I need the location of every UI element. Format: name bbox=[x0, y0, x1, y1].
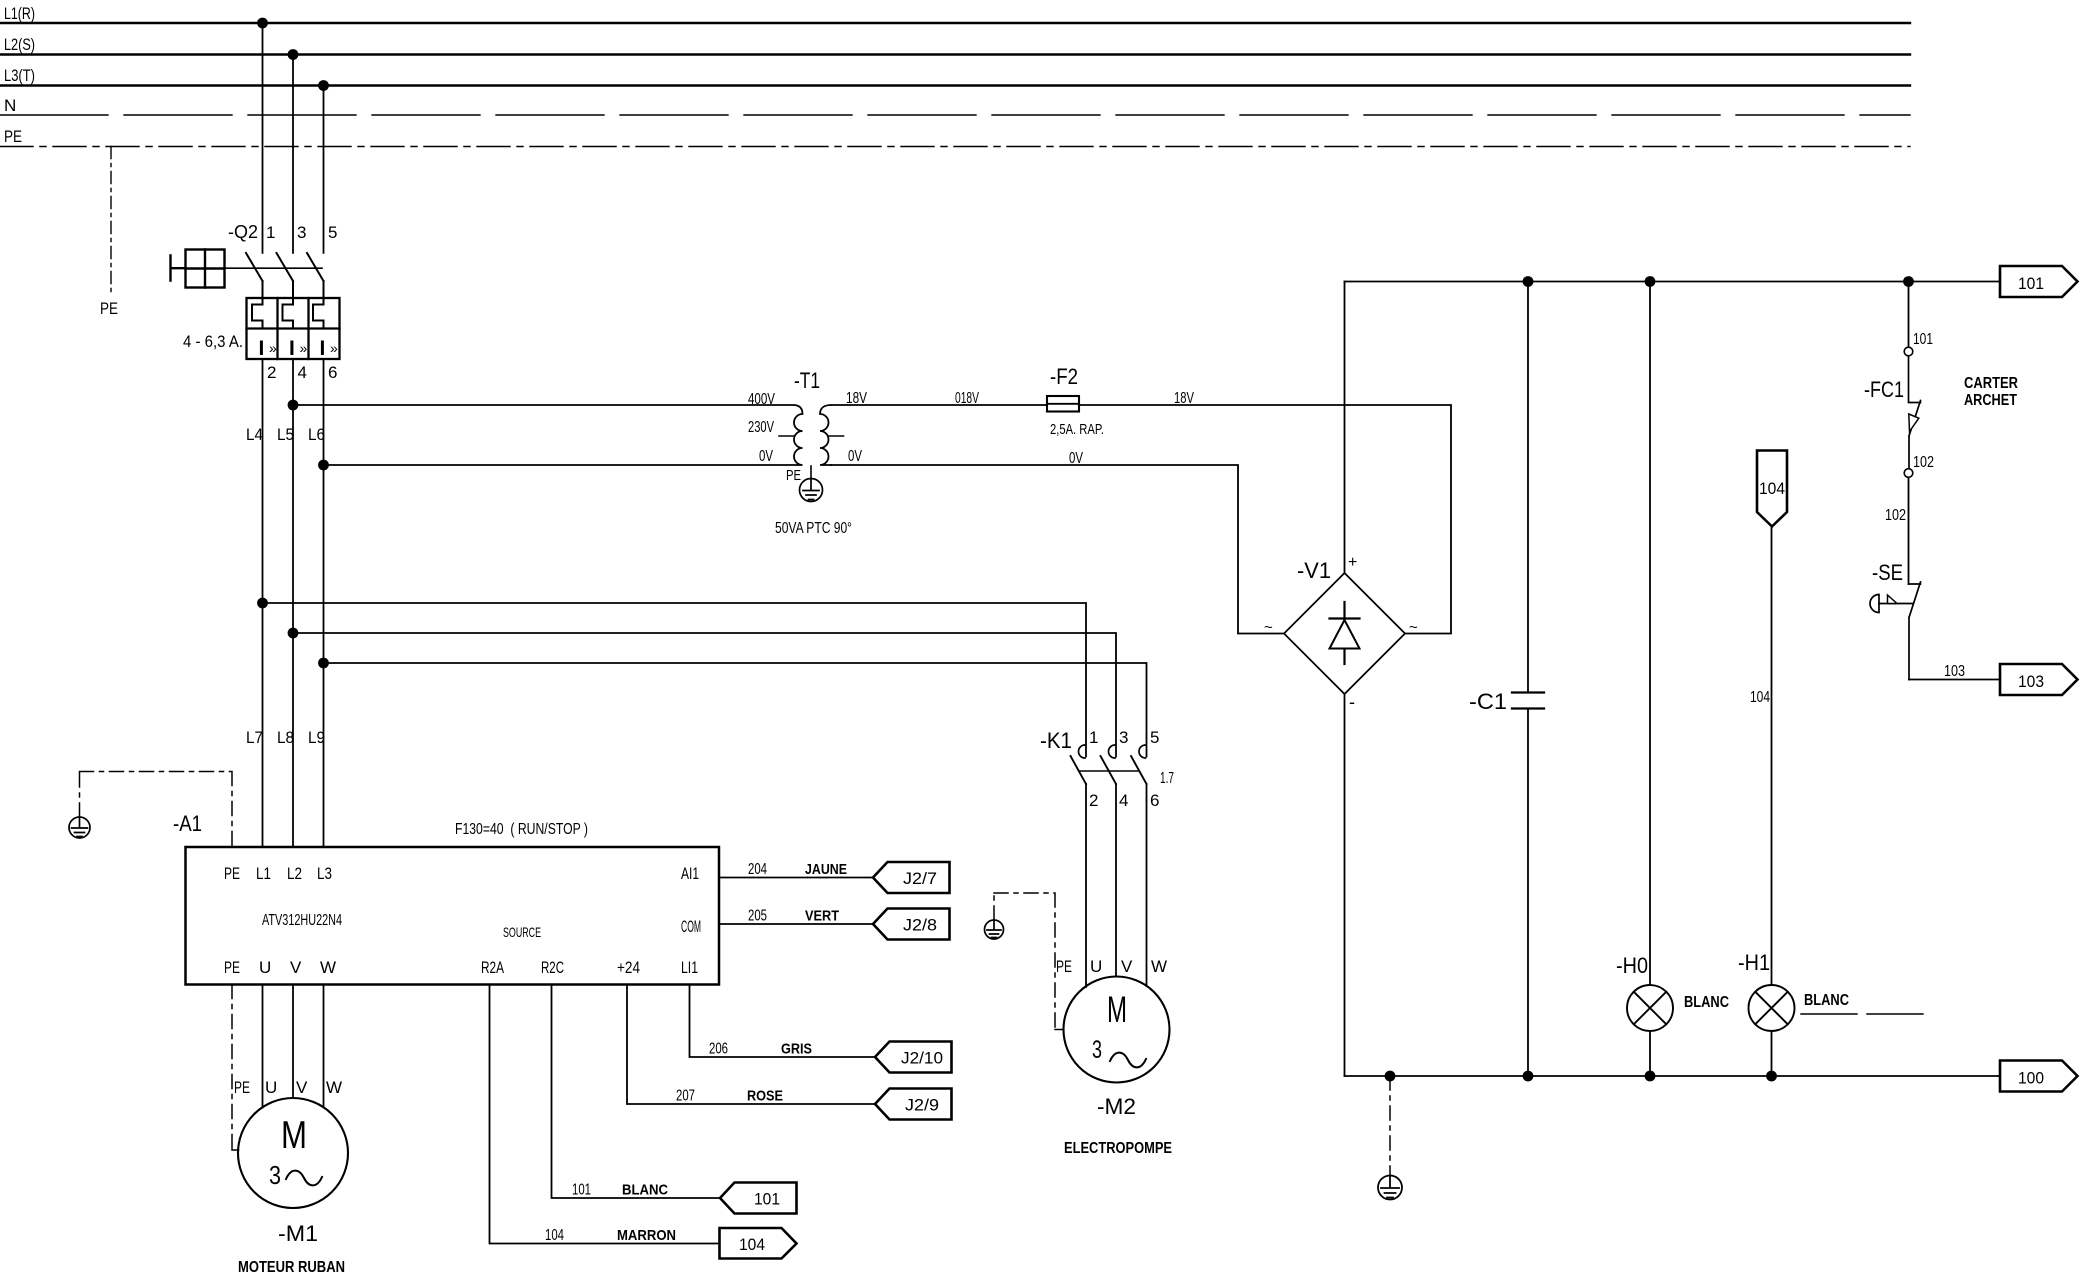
svg-text:PE: PE bbox=[224, 864, 240, 883]
wire L6 bbox=[323, 359, 325, 847]
svg-text:-H1: -H1 bbox=[1738, 950, 1770, 975]
wire PE rail bbox=[0, 146, 1910, 148]
breaker Q2 handle box bbox=[186, 250, 225, 288]
wire L2 rail bbox=[0, 53, 1910, 55]
svg-text:J2/10: J2/10 bbox=[901, 1049, 943, 1068]
svg-text:GRIS: GRIS bbox=[781, 1041, 812, 1058]
wire PE dash-dot M1 bbox=[232, 985, 239, 1151]
wire W to M1 bbox=[323, 985, 325, 1108]
motor M1 bbox=[238, 1098, 348, 1208]
svg-text:L8: L8 bbox=[277, 728, 294, 747]
svg-text:V: V bbox=[290, 958, 302, 977]
svg-text:L3(T): L3(T) bbox=[4, 66, 35, 85]
svg-text:R2C: R2C bbox=[541, 958, 564, 977]
wire to connector 103 bbox=[1909, 679, 2000, 681]
svg-text:3: 3 bbox=[1119, 728, 1128, 747]
svg-text:+24: +24 bbox=[617, 958, 640, 977]
breaker Q2 thermal block bbox=[247, 298, 340, 359]
svg-text:-FC1: -FC1 bbox=[1864, 377, 1904, 402]
svg-text:6: 6 bbox=[328, 363, 337, 382]
node L5 to T1 400V bbox=[288, 400, 299, 411]
svg-text:MARRON: MARRON bbox=[617, 1227, 676, 1244]
svg-text:L1(R): L1(R) bbox=[4, 4, 35, 23]
svg-text:COM: COM bbox=[681, 917, 701, 936]
svg-text:PE: PE bbox=[100, 299, 118, 318]
wire L4 bbox=[262, 359, 264, 847]
svg-text:L4: L4 bbox=[246, 425, 263, 444]
svg-text:104: 104 bbox=[1759, 479, 1785, 498]
svg-text:ATV312HU22N4: ATV312HU22N4 bbox=[262, 912, 342, 929]
svg-text:103: 103 bbox=[1944, 663, 1965, 680]
svg-text:PE: PE bbox=[1056, 957, 1072, 976]
wire to earth bbox=[1389, 1076, 1391, 1174]
svg-text:L7: L7 bbox=[246, 728, 263, 747]
svg-text:101: 101 bbox=[754, 1190, 780, 1209]
contactor K1 fixed contact 3 bbox=[1109, 745, 1116, 758]
svg-text:ARCHET: ARCHET bbox=[1964, 392, 2017, 409]
svg-text:BLANC: BLANC bbox=[622, 1182, 668, 1199]
svg-text:1: 1 bbox=[266, 223, 275, 242]
svg-text:LI1: LI1 bbox=[681, 958, 698, 977]
svg-text:-: - bbox=[1349, 692, 1355, 712]
node L6 to T1 0V bbox=[318, 460, 329, 471]
node H0 bottom bbox=[1645, 1071, 1656, 1082]
svg-text:VERT: VERT bbox=[805, 908, 839, 925]
wire L2 to Q2 bbox=[292, 55, 294, 253]
svg-text:BLANC: BLANC bbox=[1804, 992, 1849, 1009]
thermal element pole 1 bbox=[252, 298, 263, 329]
node FC1 branch bbox=[1903, 276, 1914, 287]
svg-text:205: 205 bbox=[748, 908, 767, 925]
svg-text:+: + bbox=[1348, 554, 1357, 571]
svg-text:L3: L3 bbox=[317, 864, 332, 883]
svg-text:18V: 18V bbox=[1174, 390, 1194, 407]
breaker Q2 actuator link bbox=[225, 267, 323, 269]
drive A1 ATV312 block bbox=[186, 847, 720, 985]
svg-text:U: U bbox=[1090, 957, 1102, 976]
svg-text:-V1: -V1 bbox=[1297, 558, 1331, 583]
svg-text:100: 100 bbox=[2018, 1069, 2044, 1088]
svg-text:CARTER: CARTER bbox=[1964, 375, 2018, 392]
transformer T1 primary winding bbox=[293, 405, 803, 465]
svg-text:-F2: -F2 bbox=[1050, 364, 1078, 389]
wire K1 to M2 V bbox=[1115, 784, 1117, 976]
wire DC minus rail bbox=[1345, 1075, 2001, 1077]
svg-text:207: 207 bbox=[676, 1088, 695, 1105]
wire L3 to Q2 bbox=[323, 86, 325, 253]
wire 102 bbox=[1908, 478, 1910, 585]
svg-text:103: 103 bbox=[2018, 672, 2044, 691]
wire to FC1 bbox=[1908, 282, 1910, 348]
svg-text:400V: 400V bbox=[748, 391, 775, 408]
terminal circle 102 bbox=[1904, 469, 1913, 478]
svg-text:2,5A. RAP.: 2,5A. RAP. bbox=[1050, 421, 1104, 438]
svg-text:U: U bbox=[259, 958, 271, 977]
wire LI1 to J2/10 bbox=[690, 985, 876, 1058]
svg-text:L1: L1 bbox=[256, 864, 271, 883]
svg-text:»: » bbox=[330, 340, 338, 356]
svg-text:»: » bbox=[300, 340, 308, 356]
svg-text:-A1: -A1 bbox=[173, 811, 202, 836]
wire H0 to minus rail bbox=[1649, 1031, 1651, 1076]
svg-text:BLANC: BLANC bbox=[1684, 994, 1729, 1011]
terminal circle 101 bbox=[1904, 347, 1913, 356]
lamp H0 bbox=[1627, 985, 1673, 1031]
wire L1 rail bbox=[0, 22, 1910, 24]
svg-text:204: 204 bbox=[748, 861, 767, 878]
svg-text:I: I bbox=[259, 337, 265, 360]
svg-text:W: W bbox=[320, 958, 336, 977]
svg-text:50VA PTC 90°: 50VA PTC 90° bbox=[775, 520, 852, 537]
wire COM to J2/8 bbox=[719, 923, 873, 925]
switch SE contact bbox=[1909, 582, 1921, 680]
svg-text:»: » bbox=[269, 340, 277, 356]
wire bridge minus down bbox=[1344, 694, 1346, 1076]
breaker Q2 contact pole 3 bbox=[307, 253, 324, 298]
svg-text:M: M bbox=[1107, 989, 1127, 1030]
svg-text:J2/9: J2/9 bbox=[905, 1096, 939, 1115]
ground symbol A1 bbox=[69, 817, 90, 838]
svg-text:6: 6 bbox=[1150, 791, 1159, 810]
wire N rail bbox=[0, 114, 1910, 116]
lamp H1 bbox=[1749, 985, 1795, 1031]
svg-text:0V: 0V bbox=[1069, 450, 1083, 467]
node L3 tap bbox=[318, 80, 329, 91]
svg-text:-Q2: -Q2 bbox=[228, 222, 258, 242]
node L7 branch bbox=[257, 598, 268, 609]
svg-text:~: ~ bbox=[1409, 619, 1418, 636]
switch SE actuator bbox=[1870, 595, 1879, 613]
transformer T1 primary tap 230V bbox=[779, 435, 794, 437]
svg-text:V: V bbox=[1121, 957, 1133, 976]
svg-text:104: 104 bbox=[1750, 689, 1770, 706]
wire L3 rail bbox=[0, 84, 1910, 86]
wire bridge plus to DC rail bbox=[1344, 282, 1346, 574]
connector 104 right bbox=[720, 1228, 797, 1259]
rectifier bridge V1 bbox=[1284, 573, 1405, 694]
svg-text:-C1: -C1 bbox=[1469, 689, 1507, 714]
connector J2/10 bbox=[875, 1042, 952, 1073]
wire R2A to 104 bbox=[490, 985, 720, 1244]
motor M2 bbox=[1064, 977, 1170, 1083]
svg-text:5: 5 bbox=[328, 223, 337, 242]
svg-text:AI1: AI1 bbox=[681, 864, 699, 883]
wire AI1 to J2/7 bbox=[719, 877, 873, 879]
wire to K1 pole 5 bbox=[324, 663, 1147, 757]
underline marks right of BLANC bbox=[1801, 1013, 1923, 1015]
svg-text:U: U bbox=[265, 1078, 277, 1097]
wire K1 to M2 W bbox=[1146, 784, 1148, 986]
contactor K1 fixed contact 5 bbox=[1139, 745, 1146, 758]
svg-text:V: V bbox=[296, 1078, 308, 1097]
transformer T1 secondary tap bbox=[829, 435, 844, 437]
svg-text:102: 102 bbox=[1885, 507, 1906, 524]
capacitor C1 bbox=[1527, 282, 1529, 1077]
svg-text:101: 101 bbox=[2018, 274, 2044, 293]
svg-text:JAUNE: JAUNE bbox=[805, 861, 847, 878]
svg-text:3: 3 bbox=[297, 223, 306, 242]
wire to K1 pole 3 bbox=[293, 633, 1116, 757]
svg-text:PE: PE bbox=[224, 958, 240, 977]
connector 100 right bbox=[2000, 1061, 2078, 1092]
wire 18V to bridge bbox=[832, 405, 1451, 634]
svg-text:4: 4 bbox=[1119, 791, 1128, 810]
node L8 branch bbox=[288, 628, 299, 639]
wire 104 to H1 bbox=[1771, 527, 1773, 986]
node L2 tap bbox=[288, 49, 299, 60]
wire L5 bbox=[292, 359, 294, 847]
wire +24 to J2/9 bbox=[627, 985, 875, 1105]
breaker Q2 contact pole 1 bbox=[246, 253, 263, 298]
svg-text:101: 101 bbox=[1913, 331, 1933, 348]
wire PE dash-dot M2 bbox=[994, 893, 1064, 1030]
node L1 tap bbox=[257, 18, 268, 29]
connector J2/7 bbox=[873, 862, 950, 893]
svg-text:5: 5 bbox=[1150, 728, 1159, 747]
connector 101 right bbox=[2000, 266, 2078, 297]
svg-text:PE: PE bbox=[786, 467, 801, 484]
svg-text:R2A: R2A bbox=[481, 958, 504, 977]
bridge V1 diode bbox=[1343, 602, 1345, 664]
svg-text:I: I bbox=[320, 337, 326, 360]
ground symbol M2 bbox=[985, 920, 1004, 939]
svg-text:M: M bbox=[281, 1114, 307, 1157]
contactor K1 moving contact 5 bbox=[1131, 756, 1147, 784]
wire R2C to 101 bbox=[552, 985, 721, 1199]
wire U to M1 bbox=[262, 985, 264, 1108]
wire 0V to bridge bbox=[831, 465, 1284, 634]
svg-text:W: W bbox=[1151, 957, 1167, 976]
svg-text:3: 3 bbox=[269, 1160, 281, 1190]
svg-text:1: 1 bbox=[1089, 728, 1098, 747]
node L9 branch bbox=[318, 658, 329, 669]
svg-text:230V: 230V bbox=[748, 419, 774, 436]
svg-text:206: 206 bbox=[709, 1041, 728, 1058]
wire K1 to M2 U bbox=[1085, 784, 1087, 987]
contactor K1 linkage bbox=[1079, 770, 1138, 772]
svg-text:J2/8: J2/8 bbox=[903, 916, 937, 935]
transformer T1 secondary winding bbox=[820, 405, 831, 465]
breaker Q2 contact pole 2 bbox=[277, 253, 294, 298]
svg-text:0V: 0V bbox=[848, 448, 862, 465]
svg-text:-K1: -K1 bbox=[1040, 728, 1072, 753]
svg-text:SOURCE: SOURCE bbox=[503, 924, 541, 940]
fuse F2 bbox=[1047, 396, 1079, 412]
svg-text:PE: PE bbox=[4, 127, 22, 146]
svg-text:PE: PE bbox=[234, 1078, 250, 1097]
thermal element pole 3 bbox=[313, 298, 324, 329]
svg-text:W: W bbox=[326, 1078, 342, 1097]
wire H0 drop bbox=[1649, 282, 1651, 986]
connector 103 right bbox=[2000, 664, 2078, 695]
svg-text:4 - 6,3 A.: 4 - 6,3 A. bbox=[183, 332, 243, 351]
svg-text:L2: L2 bbox=[287, 864, 302, 883]
svg-text:-H0: -H0 bbox=[1616, 953, 1648, 978]
svg-text:F130=40 ( RUN/STOP ): F130=40 ( RUN/STOP ) bbox=[455, 821, 588, 838]
wire PE dash-dot A1 bbox=[80, 772, 233, 848]
svg-text:ELECTROPOMPE: ELECTROPOMPE bbox=[1064, 1140, 1172, 1157]
contactor K1 moving contact 3 bbox=[1101, 756, 1117, 784]
svg-text:-M1: -M1 bbox=[278, 1221, 318, 1246]
connector 104 arrow down bbox=[1757, 451, 1787, 527]
svg-text:-M2: -M2 bbox=[1097, 1094, 1136, 1119]
contactor K1 moving contact 1 bbox=[1071, 756, 1087, 784]
thermal element pole 2 bbox=[283, 298, 294, 329]
svg-text:0V: 0V bbox=[759, 448, 773, 465]
connector 101 left bbox=[720, 1183, 797, 1214]
svg-text:2: 2 bbox=[1089, 791, 1098, 810]
svg-text:2: 2 bbox=[267, 363, 276, 382]
wire PE drop bbox=[110, 147, 112, 293]
svg-text:4: 4 bbox=[298, 363, 307, 382]
wire DC plus rail bbox=[1345, 281, 2001, 283]
wire H1 to minus rail bbox=[1771, 1031, 1773, 1076]
wire L1 to Q2 bbox=[262, 23, 264, 253]
wire V to M1 bbox=[292, 985, 294, 1099]
svg-text:L2(S): L2(S) bbox=[4, 35, 35, 54]
svg-text:L5: L5 bbox=[277, 425, 294, 444]
svg-text:018V: 018V bbox=[955, 390, 979, 407]
svg-text:I: I bbox=[289, 337, 295, 360]
svg-text:N: N bbox=[4, 96, 16, 115]
svg-text:J2/7: J2/7 bbox=[903, 869, 937, 888]
node H1 bottom bbox=[1766, 1071, 1777, 1082]
svg-text:~: ~ bbox=[1264, 619, 1273, 636]
contactor K1 fixed contact 1 bbox=[1079, 745, 1086, 758]
node earth branch bbox=[1385, 1071, 1396, 1082]
ground symbol bottom bbox=[1378, 1176, 1402, 1200]
node C1 bottom bbox=[1523, 1071, 1534, 1082]
svg-text:-T1: -T1 bbox=[794, 368, 820, 393]
wire to K1 pole 1 bbox=[263, 603, 1087, 757]
svg-text:ROSE: ROSE bbox=[747, 1088, 783, 1105]
svg-text:1.7: 1.7 bbox=[1160, 770, 1174, 787]
node C1 top bbox=[1523, 276, 1534, 287]
connector J2/9 bbox=[875, 1089, 952, 1120]
svg-text:104: 104 bbox=[739, 1235, 765, 1254]
connector J2/8 bbox=[873, 909, 950, 940]
svg-text:3: 3 bbox=[1092, 1036, 1102, 1064]
node H0 top bbox=[1645, 276, 1656, 287]
svg-text:104: 104 bbox=[545, 1227, 564, 1244]
breaker Q2 handle bar bbox=[171, 256, 186, 281]
svg-text:L6: L6 bbox=[308, 425, 325, 444]
svg-text:102: 102 bbox=[1913, 454, 1934, 471]
svg-text:L9: L9 bbox=[308, 728, 325, 747]
svg-text:MOTEUR RUBAN: MOTEUR RUBAN bbox=[238, 1259, 345, 1276]
svg-text:-SE: -SE bbox=[1872, 560, 1903, 585]
svg-text:101: 101 bbox=[572, 1182, 591, 1199]
